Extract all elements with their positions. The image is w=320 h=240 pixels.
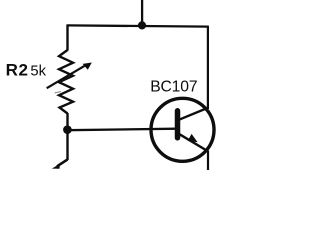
R2 wiper arrow — [47, 63, 92, 94]
wire resistor bottom to node — [66, 113, 68, 130]
svg-text:BC107: BC107 — [150, 79, 197, 96]
svg-text:R2: R2 — [6, 61, 29, 80]
wire top horizontal rail — [68, 25, 208, 26]
node junction dot base — [63, 125, 72, 134]
transistor Q1 BC107 body circle — [151, 98, 214, 161]
resistor R2 zigzag body — [59, 50, 73, 114]
wire lower left to bottom resistor — [66, 130, 68, 160]
transistor emitter lead — [179, 134, 208, 151]
wire emitter to bottom edge — [207, 151, 209, 171]
transistor collector lead — [179, 108, 209, 120]
wire left vertical from rail to resistor — [66, 24, 68, 50]
emitter arrowhead — [188, 134, 198, 142]
wire base lead — [68, 129, 177, 131]
wire right vertical to collector — [207, 26, 209, 109]
wire top feed — [141, 0, 143, 26]
resistor lower partial zigzag — [52, 160, 68, 169]
node junction dot top — [138, 21, 146, 29]
svg-text:5k: 5k — [30, 64, 46, 80]
transistor base bar — [175, 111, 181, 138]
